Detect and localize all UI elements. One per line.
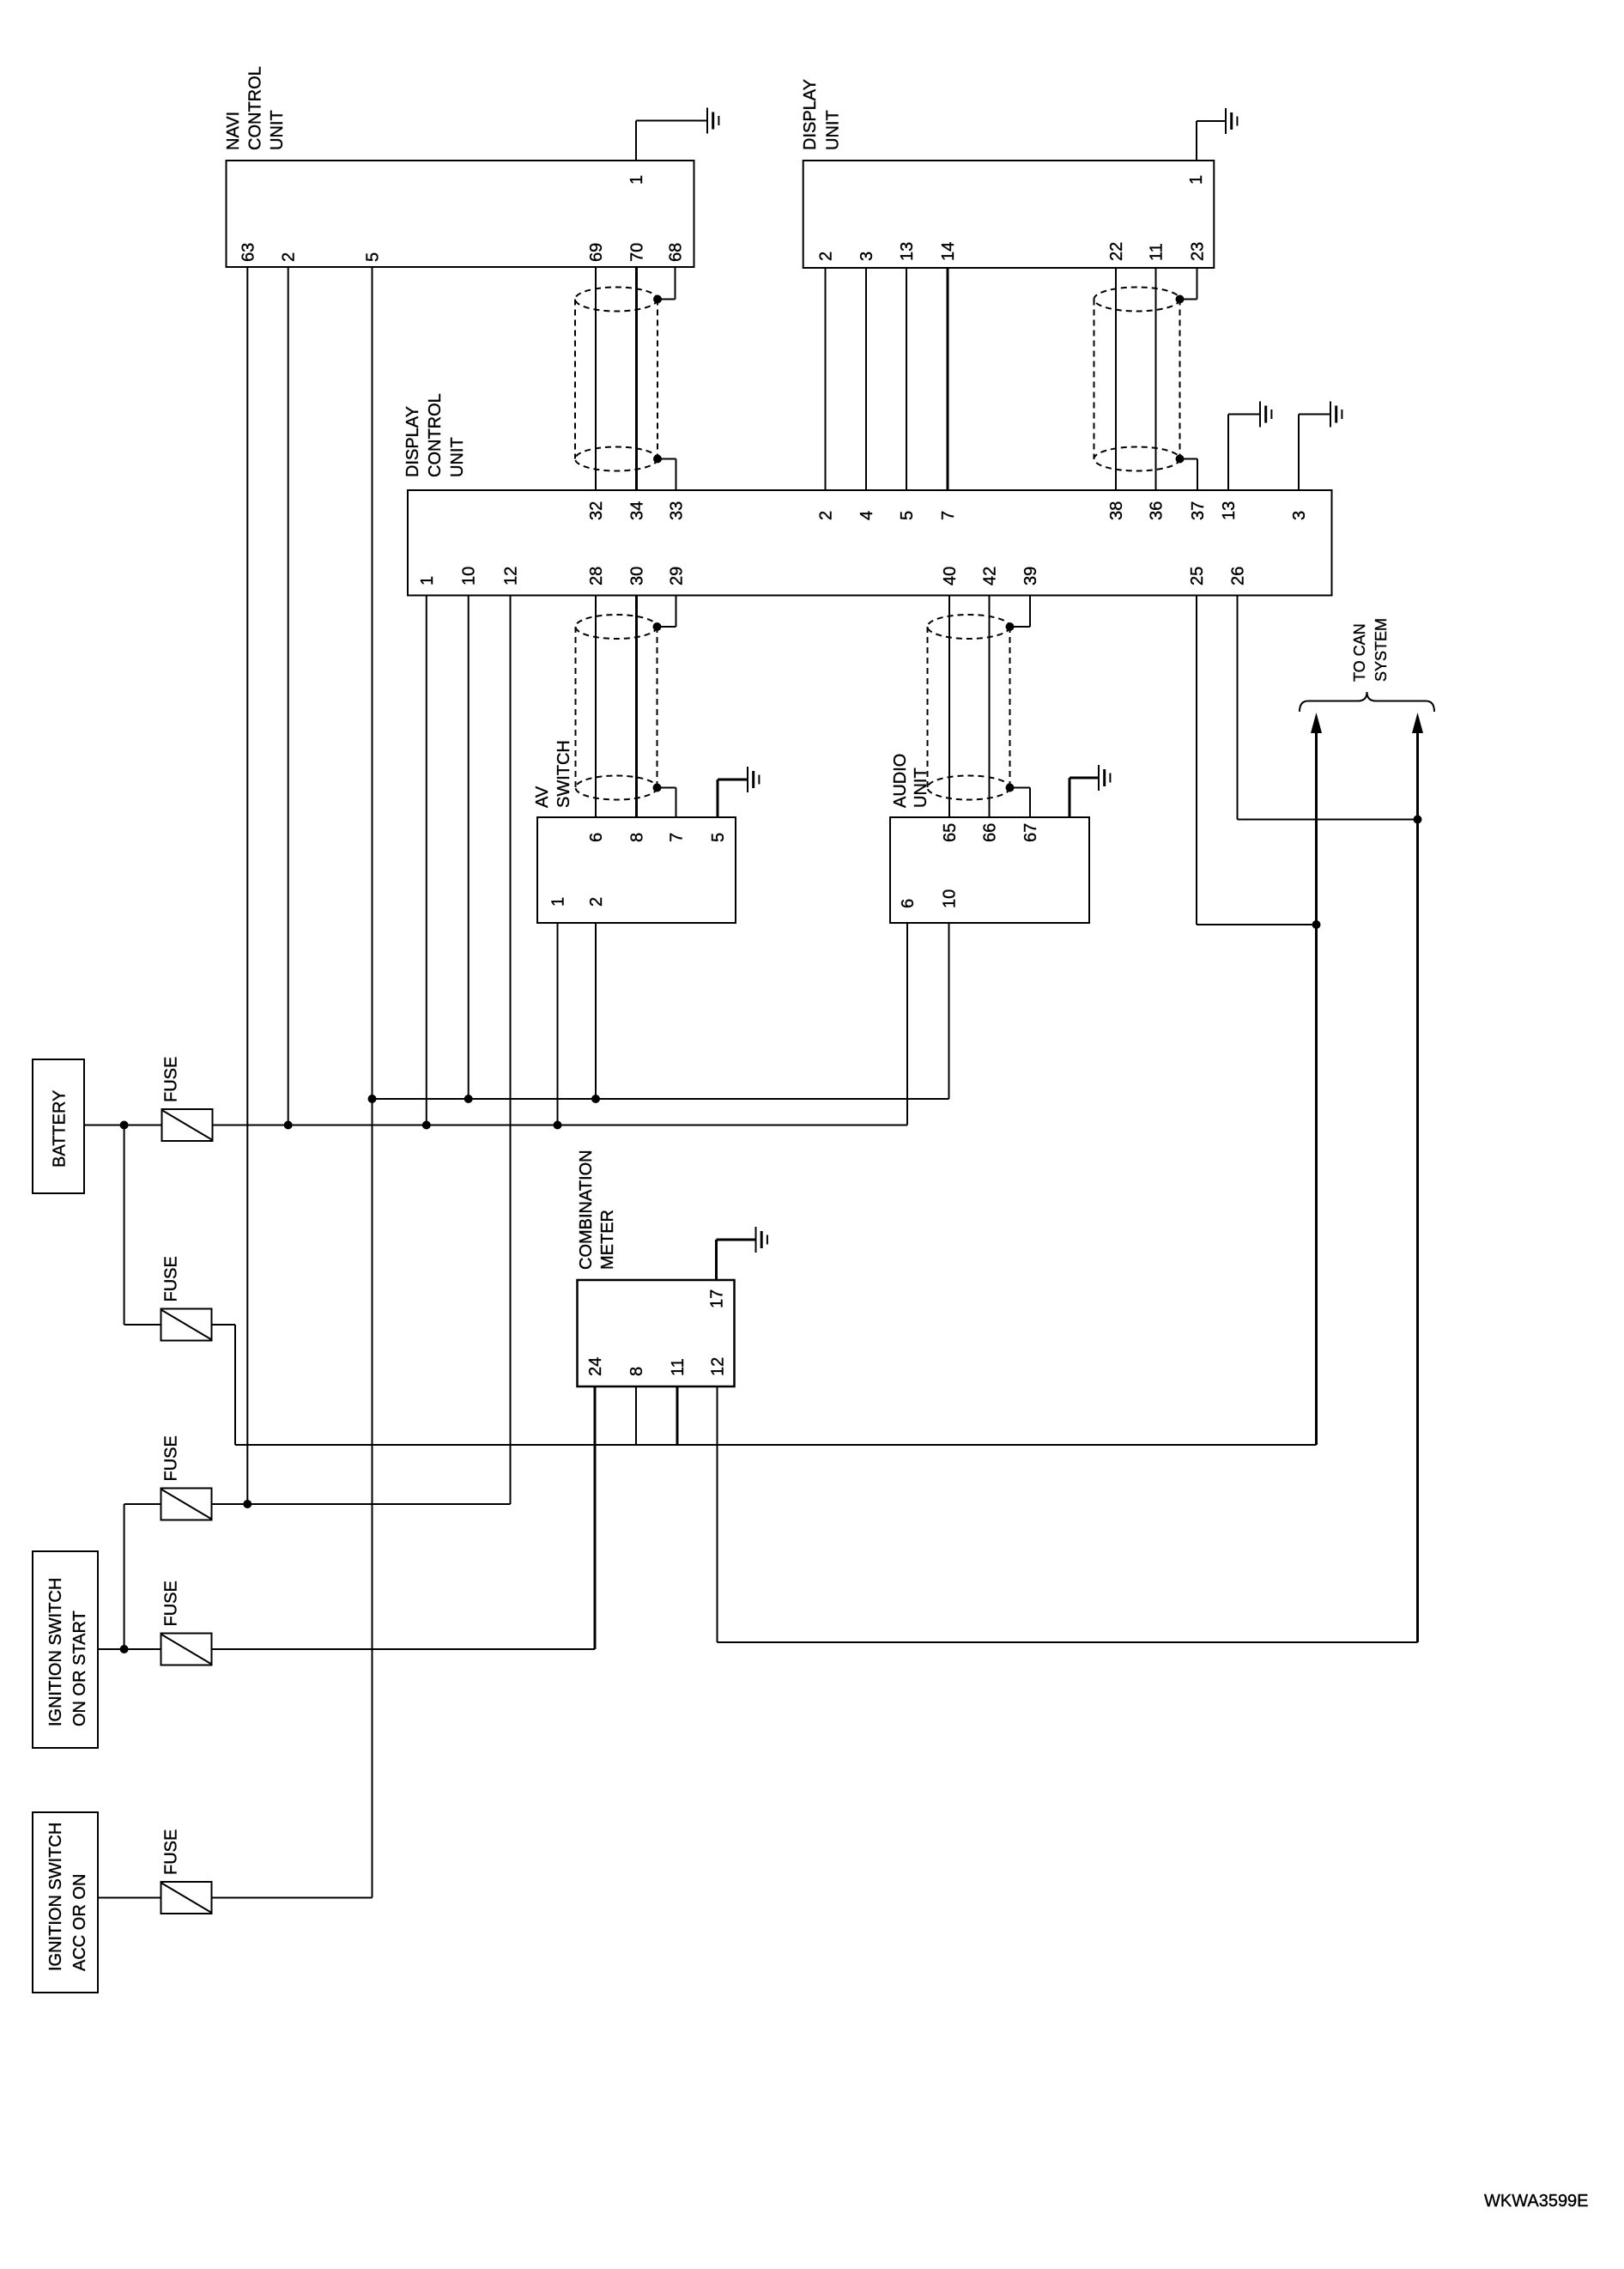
svg-text:38: 38 — [1107, 501, 1126, 520]
wire dcu26 down — [1237, 596, 1239, 820]
junction can-L dcu25 — [1312, 920, 1321, 929]
ignition switch acc-or-on box — [33, 1812, 98, 1993]
wire audio10 to acc line — [948, 923, 950, 1099]
wire navi63 down — [246, 267, 248, 1504]
svg-text:2: 2 — [817, 252, 836, 261]
wire battery branch down to fuse2 — [124, 1125, 125, 1326]
svg-text:22: 22 — [1107, 242, 1126, 261]
svg-text:69: 69 — [587, 243, 606, 262]
wire meter24 up — [594, 1386, 597, 1649]
svg-text:AV: AV — [533, 786, 552, 808]
wire fuse2 drop — [234, 1325, 236, 1445]
svg-text:2: 2 — [280, 252, 299, 262]
junction battery line dcu1 — [422, 1121, 431, 1130]
svg-text:5: 5 — [898, 511, 917, 520]
svg-text:37: 37 — [1189, 501, 1208, 520]
svg-text:68: 68 — [667, 243, 686, 262]
wire fuse4 out to meter24 — [212, 1648, 596, 1650]
svg-text:25: 25 — [1188, 567, 1207, 585]
svg-text:67: 67 — [1021, 823, 1040, 842]
ground E3 dcu pin13 — [1228, 402, 1271, 491]
junction can-H dcu26 — [1414, 816, 1422, 824]
svg-text:33: 33 — [668, 501, 687, 520]
svg-text:11: 11 — [1148, 243, 1166, 261]
svg-text:IGNITION SWITCH: IGNITION SWITCH — [46, 1578, 65, 1726]
svg-text:ON OR START: ON OR START — [70, 1611, 89, 1726]
wire display14 to dcu7 — [947, 268, 949, 490]
wire shield drain to dcu37 drop — [1197, 459, 1198, 491]
ground E2 display pin1 — [1197, 108, 1237, 161]
audio unit box — [890, 817, 1089, 923]
svg-text:65: 65 — [941, 823, 960, 842]
wire display13 to dcu5 — [906, 268, 907, 490]
wire audio6 to battery line — [906, 923, 908, 1125]
shielded cable navi69/70 to dcu32/34 — [575, 288, 662, 471]
wire dcu40 to audio65 — [948, 596, 950, 818]
fuse F4 ignition-meter — [161, 1634, 212, 1665]
wire meter12 to can-H — [718, 1641, 1418, 1643]
wire av2 to acc line — [595, 923, 597, 1099]
junction battery/fuse2 branch — [120, 1121, 129, 1130]
svg-text:6: 6 — [899, 899, 918, 908]
svg-text:FUSE: FUSE — [162, 1256, 181, 1301]
wire meter12 down — [717, 1386, 718, 1642]
svg-text:40: 40 — [941, 567, 960, 585]
svg-text:METER: METER — [598, 1210, 617, 1270]
display control unit box — [408, 490, 1332, 596]
label IGNITION SWITCH ACC OR ON — [46, 1823, 89, 1971]
wire dcu26 to can-H — [1238, 819, 1418, 821]
wire shield drain to audio67 drop — [1029, 788, 1031, 818]
label DISPLAY CONTROL UNIT — [403, 393, 467, 477]
fuse F2 battery-memory — [161, 1309, 212, 1341]
wire navi68 to shield drain — [657, 299, 676, 300]
wire shield drain to av7 horiz — [657, 787, 676, 789]
wire dcu12 down to fuse3 line — [510, 596, 512, 1505]
wire shield drain to dcu37 horiz — [1180, 458, 1198, 460]
ground E7 combination meter pin17 — [717, 1227, 767, 1280]
wire navi68 drop — [675, 267, 676, 300]
wire shield drain to dcu33 drop — [676, 459, 677, 491]
wire ign branch up to fuse3 — [124, 1504, 125, 1649]
shielded cable display22/11 to dcu38/36 — [1094, 288, 1185, 471]
wire dcu10 down to acc line — [468, 596, 470, 1100]
wire dcu28 to av6 — [595, 596, 597, 818]
wire dcu29 drop — [676, 596, 677, 628]
svg-text:70: 70 — [628, 243, 647, 262]
svg-text:12: 12 — [709, 1357, 728, 1376]
label IGNITION SWITCH ON OR START — [46, 1578, 89, 1726]
ground E6 audio unit — [1070, 765, 1110, 817]
ignition switch on-or-start box — [33, 1551, 98, 1748]
svg-text:FUSE: FUSE — [162, 1580, 181, 1626]
wire display23 drop — [1197, 268, 1198, 300]
label DISPLAY UNIT — [801, 79, 843, 150]
wire display3 to dcu4 — [865, 268, 867, 490]
wire dcu42 to audio66 — [989, 596, 991, 818]
wire shield drain to dcu33 horiz — [657, 458, 676, 460]
label AUDIO UNIT — [891, 754, 930, 808]
wire fuse5 out — [212, 1897, 373, 1899]
wire can-L vertical — [1315, 725, 1318, 1445]
av switch box — [537, 817, 736, 923]
svg-text:24: 24 — [586, 1357, 605, 1376]
svg-text:5: 5 — [709, 833, 728, 842]
wire dcu39 drop — [1029, 596, 1031, 628]
svg-text:SYSTEM: SYSTEM — [1373, 618, 1390, 682]
svg-text:13: 13 — [898, 242, 917, 261]
svg-text:29: 29 — [668, 567, 687, 585]
ground E5 av-switch pin5 — [718, 767, 759, 817]
svg-text:12: 12 — [502, 567, 521, 585]
wire display11 to dcu36 — [1155, 268, 1157, 490]
svg-text:32: 32 — [587, 501, 606, 520]
svg-text:36: 36 — [1148, 501, 1166, 520]
wire navi70 to dcu34 (shielded pair) — [635, 267, 638, 490]
wire can-H vertical — [1416, 725, 1419, 1642]
svg-text:IGNITION SWITCH: IGNITION SWITCH — [46, 1823, 65, 1971]
shielded cable dcu28/30 to av6/8 — [576, 615, 662, 800]
brace TO CAN SYSTEM — [1300, 692, 1434, 712]
wire dcu1 down to battery line — [426, 596, 427, 1125]
fuse F1 battery — [162, 1109, 213, 1141]
svg-text:FUSE: FUSE — [162, 1829, 181, 1875]
svg-text:13: 13 — [1220, 501, 1239, 520]
wire meter8 down — [635, 1386, 637, 1445]
wire dcu39 to shield drain — [1010, 626, 1031, 628]
svg-text:DISPLAY: DISPLAY — [801, 79, 820, 150]
wire dcu25 down — [1196, 596, 1197, 925]
wire navi5 down (acc feed) — [372, 267, 373, 1898]
wire display23 to shield drain — [1180, 299, 1197, 300]
navi control unit box — [227, 161, 694, 267]
svg-text:DISPLAY: DISPLAY — [403, 406, 422, 477]
wire fuse2 out — [212, 1324, 236, 1326]
arrow to CAN system (can-H) — [1412, 713, 1423, 733]
svg-text:10: 10 — [460, 567, 479, 585]
svg-text:23: 23 — [1189, 242, 1208, 261]
svg-text:63: 63 — [239, 243, 258, 262]
svg-text:26: 26 — [1229, 567, 1248, 585]
label COMBINATION METER — [577, 1150, 617, 1270]
wire dcu29 to shield drain — [657, 626, 676, 628]
junction battery line av1 — [554, 1121, 562, 1130]
svg-text:28: 28 — [587, 567, 606, 585]
svg-text:BATTERY: BATTERY — [51, 1090, 70, 1168]
label NAVI CONTROL UNIT — [224, 66, 287, 150]
label TO CAN SYSTEM — [1351, 618, 1390, 682]
wire into fuse2 — [124, 1324, 161, 1326]
svg-text:1: 1 — [418, 576, 437, 585]
battery box — [33, 1059, 84, 1193]
svg-text:6: 6 — [587, 833, 606, 842]
svg-text:14: 14 — [939, 242, 958, 261]
svg-text:UNIT: UNIT — [268, 110, 287, 150]
label AV SWITCH — [533, 740, 573, 808]
svg-text:1: 1 — [627, 175, 646, 185]
wire shield drain to audio67 horiz — [1010, 787, 1031, 789]
wire av1 to battery line — [557, 923, 559, 1125]
shielded cable dcu40/42 to audio65/66 — [928, 615, 1015, 800]
combination meter box — [578, 1280, 735, 1386]
svg-text:5: 5 — [364, 252, 383, 262]
ground E4 dcu pin3 — [1299, 402, 1342, 491]
svg-text:UNIT: UNIT — [824, 110, 843, 150]
svg-text:2: 2 — [587, 897, 606, 907]
svg-text:ACC OR ON: ACC OR ON — [70, 1874, 89, 1971]
svg-text:66: 66 — [981, 823, 1000, 842]
svg-text:3: 3 — [857, 252, 876, 261]
svg-text:11: 11 — [669, 1358, 688, 1376]
wire shield drain to av7 drop — [676, 788, 677, 818]
svg-text:17: 17 — [708, 1289, 727, 1308]
svg-text:FUSE: FUSE — [162, 1435, 181, 1481]
fuse F5 accessory — [161, 1882, 212, 1914]
junction fuse3 line navi63 — [243, 1500, 251, 1508]
svg-text:8: 8 — [628, 833, 647, 842]
svg-text:34: 34 — [628, 501, 647, 520]
svg-text:WKWA3599E: WKWA3599E — [1484, 2192, 1589, 2211]
junction acc line navi5 — [368, 1095, 377, 1103]
wire fuse2/meter line to can-L — [235, 1444, 1317, 1446]
wire display22 to dcu38 — [1115, 268, 1117, 490]
fuse F3 ignition — [161, 1489, 212, 1520]
arrow to CAN system (can-L) — [1311, 713, 1322, 733]
svg-text:UNIT: UNIT — [448, 437, 467, 477]
svg-text:42: 42 — [981, 567, 1000, 585]
wire battery to fuse1 — [84, 1125, 162, 1126]
svg-text:TO CAN: TO CAN — [1351, 623, 1368, 682]
wire ign-on to fuse4 — [98, 1648, 161, 1650]
svg-text:1: 1 — [549, 897, 568, 907]
junction acc line dcu10 — [464, 1095, 473, 1103]
svg-text:SWITCH: SWITCH — [554, 740, 573, 808]
junction ignition on/start branch — [120, 1645, 129, 1653]
wire meter11 down to can line — [676, 1386, 679, 1445]
junction battery line navi2 — [284, 1121, 293, 1130]
wire navi69 to dcu32 — [595, 267, 597, 490]
wire fuse3 out to dcu12 — [212, 1503, 511, 1505]
wire ign-acc to fuse5 — [98, 1897, 161, 1899]
wire dcu25 to can-L — [1197, 924, 1317, 925]
wire dcu30 to av8 (shielded pair) — [635, 596, 638, 818]
svg-text:2: 2 — [817, 511, 836, 520]
wire navi2 down — [288, 267, 289, 1125]
svg-text:30: 30 — [628, 567, 647, 585]
svg-text:COMBINATION: COMBINATION — [577, 1150, 596, 1270]
svg-text:10: 10 — [941, 889, 960, 908]
svg-text:8: 8 — [627, 1367, 646, 1376]
svg-text:1: 1 — [1187, 175, 1206, 185]
svg-text:4: 4 — [857, 511, 876, 520]
wire into fuse3 — [124, 1503, 161, 1505]
display unit box — [803, 161, 1215, 268]
svg-text:CONTROL: CONTROL — [426, 393, 445, 477]
junction acc line av2 — [591, 1095, 600, 1103]
svg-text:7: 7 — [939, 511, 958, 520]
svg-text:7: 7 — [668, 833, 687, 842]
wire acc line — [373, 1098, 949, 1100]
svg-text:NAVI: NAVI — [224, 112, 243, 150]
svg-text:CONTROL: CONTROL — [246, 66, 265, 150]
svg-text:3: 3 — [1290, 511, 1309, 520]
ground E1 navi pin1 — [636, 108, 718, 161]
svg-text:39: 39 — [1021, 567, 1040, 585]
wire display2 to dcu2 — [825, 268, 827, 490]
svg-text:AUDIO: AUDIO — [891, 754, 910, 808]
svg-text:FUSE: FUSE — [162, 1057, 181, 1102]
wire battery line after fuse1 — [213, 1125, 908, 1126]
